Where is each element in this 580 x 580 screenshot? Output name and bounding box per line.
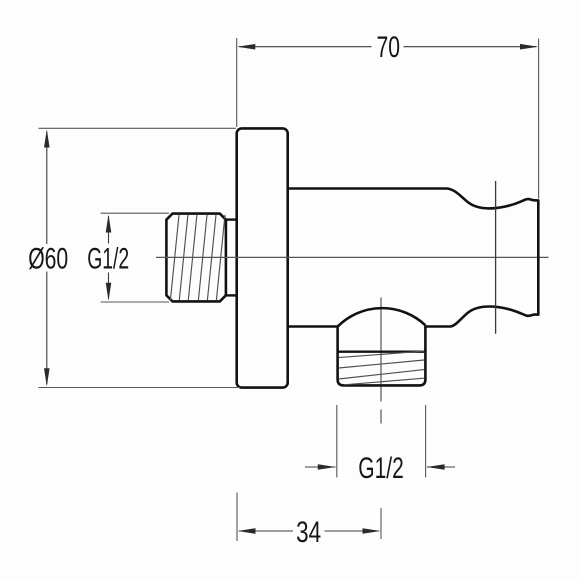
svg-text:G1/2: G1/2 — [87, 243, 129, 276]
inlet thread G1/2 block — [166, 214, 226, 302]
dimension G1/2 outlet extension line right — [425, 405, 427, 478]
cup cone edge line — [495, 181, 497, 334]
dimension G1/2 inlet extension line top — [101, 212, 169, 214]
dimension 70 arrow right — [520, 44, 538, 50]
dimension Ø60 extension line top — [39, 127, 237, 129]
dimension G1/2 outlet arrow right — [427, 464, 445, 470]
svg-text:G1/2: G1/2 — [358, 452, 404, 485]
dimension G1/2 inlet arrow up — [106, 215, 112, 233]
dimension 34 arrow left — [238, 528, 256, 534]
outlet nut thread hatch lines — [339, 351, 425, 385]
dimension G1/2 inlet arrow down — [106, 283, 112, 301]
wall flange plate (Ø60) — [237, 128, 288, 387]
dimension 34 line — [239, 530, 379, 532]
dimension Ø60 arrow down — [44, 368, 50, 386]
dimension G1/2 outlet extension line left — [336, 405, 338, 478]
centerline vertical outlet axis — [380, 298, 382, 424]
dimension 70 extension line left — [236, 38, 238, 127]
dimension G1/2 inlet line — [108, 216, 110, 299]
outlet nut body — [338, 325, 426, 385]
centerline horizontal axis — [156, 256, 549, 258]
dimension 34 extension line right — [380, 508, 382, 539]
inlet thread hatch lines — [170, 215, 225, 300]
dimension Ø60 extension line bottom — [39, 387, 241, 389]
outlet nut thread top edge — [338, 351, 425, 353]
dimension G1/2 outlet line left — [305, 466, 336, 468]
dimension 70 line — [239, 46, 537, 48]
svg-text:70: 70 — [377, 31, 401, 64]
dimension Ø60 arrow up — [44, 130, 50, 148]
outlet dome — [338, 308, 426, 326]
dimension 34 extension line left — [236, 493, 238, 542]
svg-text:Ø60: Ø60 — [28, 242, 68, 275]
body tube and holder cup outline — [288, 189, 539, 327]
dimension 34 arrow right — [363, 528, 381, 534]
dimension G1/2 outlet arrow left — [318, 464, 336, 470]
tube bottom line (left of outlet) — [288, 325, 339, 328]
inlet neck lines — [225, 220, 238, 296]
svg-text:34: 34 — [296, 516, 321, 549]
dimension G1/2 inlet extension line bottom — [101, 301, 169, 303]
dimension 70 arrow left — [237, 44, 255, 50]
dimension Ø60 line — [46, 132, 48, 385]
dimension 70 extension line right — [538, 39, 540, 199]
dimension G1/2 outlet line right — [427, 466, 455, 468]
